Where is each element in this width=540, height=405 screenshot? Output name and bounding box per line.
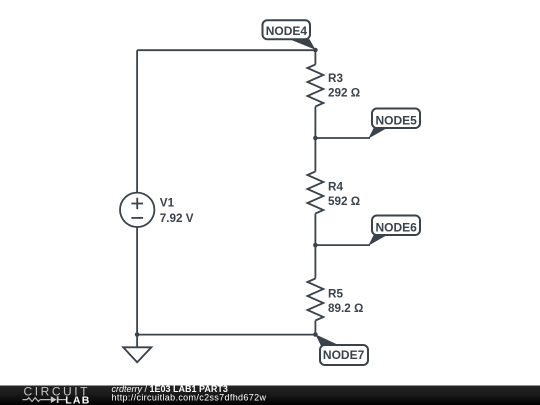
svg-text:LAB: LAB xyxy=(65,395,90,405)
svg-text:http://circuitlab.com/c2ss7dfh: http://circuitlab.com/c2ss7dfhd672w xyxy=(112,393,267,403)
wire left lower (V1 - to bottom) xyxy=(136,227,138,335)
svg-text:NODE5: NODE5 xyxy=(376,114,418,128)
junction node NODE5 xyxy=(313,136,318,141)
node flag NODE7 xyxy=(315,334,368,365)
wire NODE6 stub xyxy=(315,244,370,246)
junction node NODE6 xyxy=(313,243,318,248)
footer bar xyxy=(0,386,540,405)
svg-text:R4: R4 xyxy=(328,180,343,193)
wire top (NODE4 net) xyxy=(137,49,315,51)
wire NODE5 junction to R4 xyxy=(314,138,316,172)
junction node ground xyxy=(135,332,140,337)
wire NODE6 junction to R5 xyxy=(314,245,316,278)
wire R3 to NODE5 junction xyxy=(314,107,316,139)
logo diode xyxy=(51,396,59,403)
node flag NODE5 xyxy=(368,109,420,139)
junction node NODE4 xyxy=(313,48,318,53)
wire NODE5 stub xyxy=(315,137,370,139)
svg-text:R3: R3 xyxy=(328,72,343,85)
wire bottom (NODE7 net) xyxy=(137,334,315,336)
wire R4 to NODE6 junction xyxy=(314,214,316,246)
ground xyxy=(123,335,151,363)
svg-text:292 Ω: 292 Ω xyxy=(328,87,360,100)
svg-text:NODE7: NODE7 xyxy=(323,348,365,362)
svg-text:7.92 V: 7.92 V xyxy=(160,212,194,225)
svg-text:NODE6: NODE6 xyxy=(376,221,418,235)
logo line after diode xyxy=(59,399,67,401)
svg-text:NODE4: NODE4 xyxy=(266,24,308,38)
logo symbol line with resistor zigzag xyxy=(23,398,51,402)
voltage source V1 xyxy=(120,193,154,227)
svg-text:V1: V1 xyxy=(160,197,175,210)
svg-text:592 Ω: 592 Ω xyxy=(328,195,360,208)
resistor R3 xyxy=(307,65,323,107)
svg-text:89.2 Ω: 89.2 Ω xyxy=(328,302,363,315)
node flag NODE6 xyxy=(368,216,420,246)
wire left upper (V1 + to top) xyxy=(136,50,138,192)
junction node NODE7 xyxy=(313,332,318,337)
resistor R5 xyxy=(307,279,323,321)
resistor R4 xyxy=(307,172,323,214)
wire R5 to bottom xyxy=(314,321,316,335)
node flag NODE4 xyxy=(263,20,316,50)
svg-text:R5: R5 xyxy=(328,288,343,301)
wire right upper (NODE4 to R3) xyxy=(314,50,316,64)
